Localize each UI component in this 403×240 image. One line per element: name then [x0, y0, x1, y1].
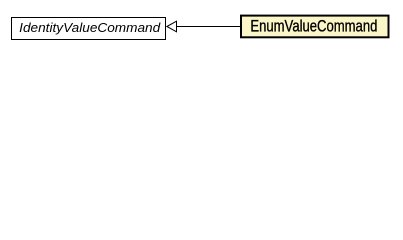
svg-text:EnumValueCommand: EnumValueCommand — [250, 18, 377, 36]
svg-text:IdentityValueCommand: IdentityValueCommand — [19, 20, 161, 35]
